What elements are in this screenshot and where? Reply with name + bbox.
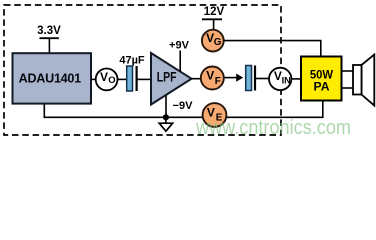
node VG (202, 30, 224, 52)
svg-text:F: F (215, 76, 221, 87)
wires PA to speaker (342, 71, 354, 88)
dashed subsystem boundary (4, 5, 281, 135)
junction dot (163, 114, 169, 120)
amplifier 50W PA (301, 57, 342, 101)
node VF (201, 67, 224, 90)
svg-text:47µF: 47µF (119, 54, 145, 66)
supply 12V (202, 6, 225, 30)
ground (159, 117, 172, 131)
svg-text:−9V: −9V (173, 100, 194, 112)
wire LPF to VF (192, 78, 202, 80)
node VIN (269, 68, 291, 90)
svg-text:www.cntronics.com: www.cntronics.com (195, 116, 351, 139)
svg-text:O: O (108, 74, 115, 85)
wire ADAU1401 to VO (91, 78, 96, 80)
svg-text:12V: 12V (204, 6, 225, 18)
svg-text:3.3V: 3.3V (37, 25, 61, 37)
label 47uF (119, 54, 145, 66)
capacitor C2 (246, 66, 255, 91)
svg-text:ADAU1401: ADAU1401 (19, 71, 82, 85)
wire C2 to VIN (255, 78, 270, 80)
node VO (96, 69, 118, 91)
wire VG to PA top (224, 41, 321, 57)
op-amp LPF (151, 53, 192, 105)
svg-text:PA: PA (314, 79, 330, 93)
watermark www.cntronics.com (195, 116, 351, 139)
supply -9V (166, 95, 193, 118)
capacitor C1 47uF (127, 66, 137, 91)
svg-text:G: G (214, 37, 222, 48)
svg-text:+9V: +9V (169, 40, 190, 52)
svg-text:LPF: LPF (157, 70, 177, 85)
wire VIN to PA (291, 78, 301, 80)
wire ADAU1401 bottom to ground bus (44, 100, 323, 117)
svg-text:IN: IN (282, 75, 292, 85)
speaker (353, 55, 374, 106)
wire VF to C2 with arrow (224, 74, 243, 82)
svg-text:V: V (100, 70, 108, 84)
wire VO to C1 (117, 78, 127, 80)
svg-text:V: V (206, 68, 214, 82)
dsp ADAU1401 (13, 53, 92, 103)
supply +9V (169, 40, 190, 73)
node VE (203, 103, 227, 127)
wire C1 to LPF (137, 78, 151, 80)
supply 3.3V (37, 25, 61, 54)
